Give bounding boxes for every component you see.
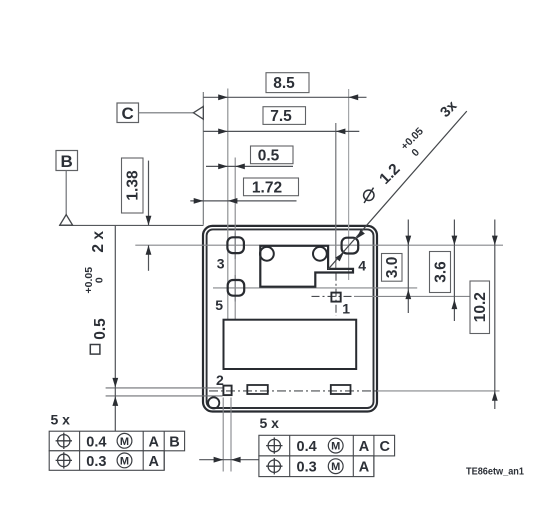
- datum B triangle: [60, 215, 73, 226]
- leader diameter callout diagonal: [328, 111, 467, 269]
- svg-text:M: M: [120, 436, 129, 448]
- svg-text:4: 4: [358, 257, 366, 273]
- arrow 0.5sq down: [112, 378, 118, 388]
- datum B leader: [65, 171, 67, 216]
- svg-text:2 x: 2 x: [90, 231, 107, 253]
- extension line pad2 right edge: [230, 398, 232, 472]
- extension line hole5 row y=287.9: [213, 287, 417, 289]
- leader line left pads column: [114, 225, 116, 431]
- arrow 8.5 left: [218, 94, 228, 100]
- dimension 7.5 line: [203, 130, 359, 132]
- hole 3: [227, 237, 244, 253]
- svg-text:TE86etw_an1: TE86etw_an1: [466, 467, 524, 478]
- svg-text:1.38: 1.38: [125, 170, 142, 201]
- svg-text:3.0: 3.0: [384, 257, 401, 279]
- FCF table 1: [49, 431, 184, 470]
- arrow 0.5 left: [218, 164, 228, 170]
- svg-text:A: A: [149, 454, 160, 470]
- position symbol row2 t1: [56, 452, 72, 468]
- extension line bottom pad row solid: [377, 390, 500, 392]
- svg-text:A: A: [149, 434, 160, 450]
- dimension 0.5 pad width line: [199, 459, 259, 461]
- dim box 8.5: [266, 73, 309, 93]
- extension line pad2 bottom extended: [106, 395, 223, 397]
- cutout circle left: [260, 247, 274, 261]
- dimension 1.38 line lower: [148, 245, 150, 271]
- datum C triangle: [193, 106, 203, 119]
- extension line pad2 top extended: [106, 387, 223, 389]
- svg-text:M: M: [331, 461, 340, 473]
- extension line hole row y=245.2: [135, 244, 503, 246]
- callout tolerance: [399, 125, 426, 159]
- bottom pad right: [331, 385, 351, 394]
- svg-text:0.5: 0.5: [258, 148, 280, 165]
- dim box 3.6 vertical: [430, 252, 451, 293]
- hole 5: [228, 280, 245, 296]
- extension line datum C vertical: [202, 92, 204, 225]
- svg-text:3: 3: [217, 255, 225, 271]
- arrow 10.2 down: [492, 236, 498, 246]
- svg-text:3.6: 3.6: [433, 261, 450, 283]
- M circle row2 t2: [328, 459, 343, 474]
- tolerance +0.05/0 rotated: [83, 267, 106, 294]
- svg-text:B: B: [61, 152, 73, 171]
- centerline pad1 horizontal dash-dot: [312, 295, 355, 297]
- dimension 3.6 line: [453, 220, 455, 322]
- svg-text:C: C: [380, 439, 391, 455]
- arrow 1.38 up: [146, 245, 152, 255]
- datum B extension line y=225.4: [59, 224, 204, 226]
- extension line x=335.8 pad1 column: [335, 123, 337, 269]
- svg-text:C: C: [122, 104, 134, 123]
- svg-text:0.4: 0.4: [86, 434, 106, 450]
- dim box 0.5: [251, 146, 294, 164]
- inner cutout polygon: [260, 246, 353, 287]
- arrow 3.0 up: [405, 290, 411, 300]
- centerline hole 5 vertical: [234, 275, 236, 302]
- svg-text:0.3: 0.3: [297, 460, 317, 476]
- svg-text:5 x: 5 x: [51, 411, 71, 427]
- arrow pad width left: [214, 457, 224, 463]
- arrow 3.6 up: [452, 300, 458, 310]
- square symbol: [90, 345, 100, 355]
- position symbol row1 t2: [266, 437, 282, 453]
- centerline bottom pad row dash-dot: [209, 390, 377, 392]
- svg-text:M: M: [331, 441, 340, 453]
- bottom pad left: [247, 385, 267, 394]
- fiducial circle: [208, 397, 219, 408]
- svg-text:0.5: 0.5: [92, 318, 109, 340]
- cutout circle right: [313, 247, 327, 261]
- arrow 3.6 down: [452, 236, 458, 246]
- dim box 7.5: [263, 107, 306, 125]
- svg-text:2: 2: [216, 372, 224, 388]
- svg-text:1: 1: [342, 300, 350, 316]
- dim box 10.2 vertical: [470, 281, 490, 334]
- datum C leader: [139, 112, 194, 114]
- svg-text:0.3: 0.3: [86, 454, 106, 470]
- centerline pad1 vertical dash-dot: [335, 273, 337, 316]
- extension line pad1 row solid: [354, 295, 471, 297]
- dimension 10.2 line: [494, 220, 496, 410]
- extension line x=235.2 hole column: [234, 158, 236, 320]
- dimension 0.5 line: [206, 165, 293, 167]
- dimension 1.72 line: [190, 200, 296, 202]
- svg-text:8.5: 8.5: [273, 75, 295, 92]
- dim box 1.38 vertical: [122, 158, 144, 213]
- M circle row2 t1: [117, 453, 132, 468]
- arrow 7.5 right: [336, 129, 346, 135]
- big rectangle cavity: [224, 320, 357, 369]
- svg-text:A: A: [359, 439, 370, 455]
- extension line x=348.6 hole4 column: [348, 89, 350, 280]
- svg-text:M: M: [120, 455, 129, 467]
- arrow 10.2 up: [492, 391, 498, 401]
- position symbol row2 t2: [266, 458, 282, 474]
- svg-text:1.72: 1.72: [252, 180, 282, 197]
- centerline hole 3 vertical: [234, 233, 236, 260]
- position symbol row1 t1: [56, 433, 72, 449]
- arrow 8.5 right: [349, 94, 359, 100]
- svg-text:0: 0: [94, 277, 106, 283]
- M circle row1 t2: [328, 438, 343, 453]
- svg-text:5 x: 5 x: [260, 415, 280, 431]
- arrow callout lower: [335, 252, 344, 261]
- arrow 1.72 left: [194, 198, 204, 204]
- svg-text:A: A: [359, 460, 370, 476]
- dimension 3.0 line: [407, 220, 409, 314]
- arrow 0.5sq up: [112, 396, 118, 406]
- extension line pad2 left edge: [222, 398, 224, 472]
- datum C box: [117, 103, 139, 123]
- extension line x=227.8: [227, 89, 229, 320]
- arrow 7.5 left: [218, 129, 228, 135]
- diameter callout text: [364, 188, 374, 203]
- datum B box: [56, 151, 78, 171]
- arrow pad width right: [231, 457, 241, 463]
- pad 2 square: [223, 386, 231, 396]
- svg-text:5: 5: [215, 297, 223, 313]
- dimension 1.38 line upper: [148, 161, 150, 226]
- arrow 1.38 down: [146, 216, 152, 226]
- svg-text:7.5: 7.5: [270, 108, 292, 125]
- pad 1 square: [331, 293, 340, 302]
- arrow 0.5 right: [235, 164, 245, 170]
- arrow 3.0 down: [405, 236, 411, 246]
- dim box 3.0 vertical: [382, 254, 403, 282]
- diameter symbol: [364, 190, 374, 200]
- svg-text:0.4: 0.4: [297, 439, 317, 455]
- dim box 1.72: [244, 178, 299, 196]
- arrow 1.72 right: [228, 198, 238, 204]
- dimension 8.5 line: [203, 96, 366, 98]
- part outline outer: [203, 226, 377, 412]
- svg-text:10.2: 10.2: [472, 292, 489, 322]
- hole 4: [342, 238, 359, 254]
- FCF table 2: [259, 435, 395, 476]
- svg-text:B: B: [169, 434, 179, 450]
- arrow callout upper: [356, 230, 365, 239]
- M circle row1 t1: [117, 433, 132, 448]
- part outline inner: [207, 229, 374, 408]
